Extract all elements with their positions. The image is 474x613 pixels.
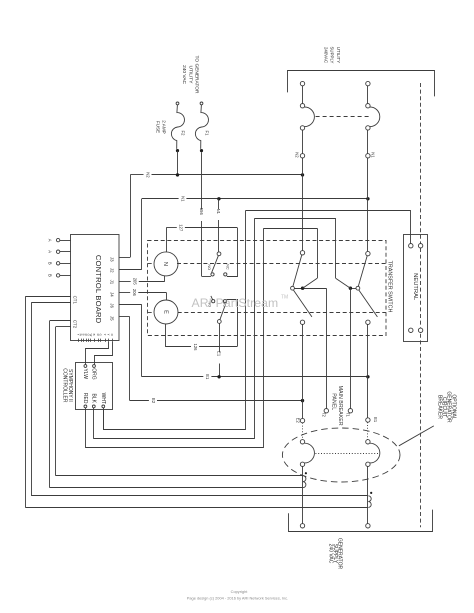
svg-text:Page design (c) 2004 - 2016 by: Page design (c) 2004 - 2016 by ARI Netwo… [187, 595, 288, 600]
dotted linkage E2 [302, 423, 304, 440]
svg-text:240 VAC: 240 VAC [181, 65, 187, 84]
wire [302, 86, 304, 104]
dashed link E coil [148, 312, 154, 314]
utility supply bracket [288, 71, 435, 97]
utility breaker pole B upper contact [366, 104, 370, 108]
wire N2 horizontal [130, 172, 302, 178]
svg-text:N2: N2 [295, 152, 300, 158]
terminal BLK [90, 393, 96, 407]
utility breaker pole A upper contact [300, 104, 304, 108]
label 2 AMP FUSE [156, 120, 167, 134]
label GENERATOR SUPPLY 240 VAC [328, 538, 343, 570]
wire pivot link [294, 288, 326, 290]
gen breaker pole L bottom [300, 462, 304, 466]
svg-text:T1: T1 [346, 412, 351, 418]
svg-text:N2: N2 [145, 172, 150, 178]
gen breaker pole R arc [370, 443, 380, 463]
svg-text:J2: J2 [110, 268, 115, 273]
optional generator breaker dashed ellipse [282, 428, 400, 482]
svg-text:N: N [162, 262, 168, 266]
wire 556 from F1 to aux NO [199, 152, 204, 276]
fuse F2 [171, 105, 185, 149]
dashed neutral conductor [420, 83, 422, 527]
svg-text:B: B [92, 334, 96, 336]
gen breaker pole L arc [305, 443, 315, 463]
wire [302, 130, 304, 153]
label UTILITY SUPPLY 240VAC [323, 46, 341, 63]
wire RED loop upper [264, 228, 318, 230]
svg-text:J6: J6 [110, 303, 115, 308]
wire E1 from aux common [217, 323, 222, 376]
wire L lower to E2 terminal [302, 325, 304, 419]
svg-text:205: 205 [133, 278, 138, 286]
wire CT1-a to CT-R bottom [25, 296, 71, 298]
terminal B2 [48, 274, 71, 277]
terminal RED [82, 393, 88, 408]
utility breaker pole B lower contact [366, 126, 370, 130]
utility breaker pole A top terminal [300, 81, 304, 85]
svg-text:A: A [48, 250, 53, 253]
dashed link N coil [148, 263, 154, 265]
svg-text:NEUTRAL: NEUTRAL [412, 273, 418, 301]
junction dot E1 aux [217, 375, 220, 378]
wire BLK loop upper [255, 218, 336, 220]
transfer contact R blade upper [358, 256, 367, 287]
svg-text:N1: N1 [180, 196, 185, 202]
neutral terminal bottom left [409, 328, 413, 332]
current transformer CT-L [303, 472, 307, 488]
wire [367, 86, 369, 104]
transfer contact L pivot [291, 286, 295, 290]
transfer contact L blade lower [293, 290, 312, 317]
control board box [71, 235, 120, 341]
svg-text:TM: TM [281, 295, 288, 301]
svg-text:UTILITY: UTILITY [187, 66, 193, 85]
wire T2 drop [326, 288, 328, 408]
svg-text:126: 126 [193, 344, 198, 352]
transfer contact L blade upper [293, 255, 302, 287]
svg-text:E1: E1 [373, 417, 378, 423]
junction dot E1 right [366, 375, 369, 378]
gen breaker pole R top [366, 440, 370, 444]
wire N2 from J3 [119, 257, 130, 259]
svg-text:PANEL: PANEL [331, 393, 337, 410]
aux switch E NO contact [208, 296, 215, 307]
utility breaker pole A lower contact [300, 126, 304, 130]
wire RED down [85, 408, 87, 448]
wire 206 J4 to E coil [119, 289, 166, 300]
generator supply bracket [289, 510, 433, 532]
svg-text:G: G [99, 334, 103, 336]
terminal gen R [366, 524, 370, 528]
svg-text:TRANSFER SWITCH: TRANSFER SWITCH [386, 261, 392, 313]
junction dot E2 [301, 399, 304, 402]
wire N1 from J2 [119, 269, 142, 271]
svg-text:N1: N1 [370, 152, 375, 158]
dotted tie gen breaker [315, 453, 379, 455]
wire WHT down [103, 408, 105, 430]
svg-text:E1: E1 [205, 374, 210, 380]
fuse F2 junction dot on N2 wire [176, 149, 179, 152]
svg-text:F1: F1 [204, 131, 209, 137]
junction dot R [349, 287, 352, 290]
svg-text:240 VAC: 240 VAC [328, 544, 334, 564]
svg-text:N1: N1 [216, 209, 221, 215]
svg-text:ARI PartStream: ARI PartStream [192, 296, 279, 310]
wire CT2-a to CT-L bottom [50, 320, 71, 322]
dotted linkage E1 [367, 422, 369, 439]
utility breaker dashed tie [316, 116, 372, 118]
wire gen L pole down [302, 467, 304, 524]
svg-text:J4: J4 [110, 292, 115, 297]
current transformer CT-R [368, 492, 372, 508]
wire T1 drop [350, 288, 352, 408]
wire ORG from board [95, 342, 113, 365]
aux switch E NC contact [222, 300, 226, 308]
svg-text:TO GENERATOR: TO GENERATOR [194, 56, 200, 94]
neutral terminal top right [418, 244, 422, 248]
wire N1 branch to aux common [216, 199, 221, 252]
transfer contact L lower [300, 320, 304, 324]
svg-text:2 AMP: 2 AMP [162, 120, 167, 134]
terminal A2 [48, 250, 71, 253]
fuse F1 [195, 105, 209, 149]
svg-text:556: 556 [199, 208, 204, 216]
terminal T2 [322, 409, 329, 418]
terminal WHT [100, 393, 106, 408]
wire pole B down to transfer contact [367, 158, 369, 251]
svg-text:B: B [48, 262, 53, 265]
svg-text:SUPPLY: SUPPLY [330, 46, 335, 63]
svg-text:240VAC: 240VAC [323, 47, 328, 63]
svg-text:206: 206 [132, 289, 137, 297]
label OPTIONAL GENERATOR CIRCUIT BREAKER [437, 391, 457, 423]
transfer contact R pivot [356, 286, 360, 290]
svg-text:F2: F2 [180, 131, 185, 137]
coil N [154, 252, 178, 276]
junction dot N1 branch [217, 197, 220, 200]
terminal T1 [346, 409, 353, 418]
wire 127 N coil top to aux NC [166, 224, 237, 252]
wire gen R pole down [367, 467, 369, 524]
wire R to riser [336, 278, 351, 288]
svg-text:Copyright: Copyright [231, 589, 249, 594]
gen breaker pole R bottom [366, 462, 370, 466]
wire YLW from board [86, 342, 109, 365]
aux switch E common pivot [217, 320, 221, 324]
wire N1 horizontal [142, 196, 368, 202]
wire CT2-b to CT-L top [56, 326, 71, 328]
svg-text:J1: J1 [110, 280, 115, 285]
aux switch E NC bracket to 126 [227, 300, 238, 347]
svg-text:A: A [48, 239, 53, 242]
svg-text:E: E [162, 310, 168, 314]
svg-text:YLW: YLW [82, 368, 88, 379]
transfer contact R upper [366, 251, 370, 255]
svg-text:CONTROL BOARD: CONTROL BOARD [94, 255, 103, 324]
utility pole B terminal N1 [366, 152, 376, 158]
junction dot N2/pole [301, 173, 304, 176]
transfer contact L upper [300, 251, 304, 255]
svg-text:E2: E2 [295, 418, 300, 424]
terminal YLW [82, 365, 88, 380]
junction dot N2/F2 [176, 173, 179, 176]
wire 205 J1 to N coil [119, 275, 165, 285]
junction dot L [301, 287, 304, 290]
label SYMPHONY II CONTROLLER [61, 368, 73, 403]
aux switch E blade [220, 303, 226, 320]
terminal B1 [48, 262, 71, 265]
wire 126 E coil bottom to aux NC [166, 324, 238, 351]
svg-text:J3: J3 [110, 257, 115, 262]
utility breaker pole A arc [305, 107, 315, 127]
label TO GENERATOR UTILITY 240 VAC [181, 56, 200, 94]
aux switch N NO bracket [202, 276, 211, 278]
callout line [399, 426, 434, 446]
svg-text:CONTROLLER: CONTROLLER [61, 368, 67, 403]
aux switch N common pivot [217, 252, 221, 256]
aux switch N blade [212, 256, 219, 273]
svg-text:ORG: ORG [91, 368, 97, 380]
svg-text:Y: Y [106, 334, 110, 336]
svg-text:NO: NO [207, 264, 211, 270]
svg-text:CT1: CT1 [72, 296, 77, 305]
svg-text:RED: RED [82, 393, 88, 404]
transfer contact R lower [366, 320, 370, 324]
svg-text:MAIN BREAKER: MAIN BREAKER [337, 386, 343, 426]
utility breaker pole B top terminal [366, 81, 370, 85]
neutral terminal top left [409, 244, 413, 248]
svg-text:FUSE: FUSE [156, 121, 161, 133]
neutral block [404, 235, 428, 342]
symphony controller box [76, 363, 113, 410]
wire [367, 130, 369, 153]
coil E [154, 300, 178, 324]
svg-text:B: B [48, 274, 53, 277]
aux switch N NC contact [224, 264, 230, 276]
terminal gen L [300, 524, 304, 528]
svg-text:BLK: BLK [90, 393, 96, 403]
utility breaker pole B arc [370, 107, 380, 127]
svg-text:BREAKER: BREAKER [437, 395, 443, 419]
wire L to riser [303, 278, 318, 288]
aux switch N NC bracket to 127 [227, 228, 238, 277]
aux switch N NO contact [207, 264, 214, 276]
terminal ORG [91, 365, 97, 380]
wire E2 from J5 [119, 317, 302, 404]
svg-text:J5: J5 [110, 316, 115, 321]
wire pole A down to transfer contact [302, 158, 304, 251]
transfer contact R blade lower [359, 290, 378, 317]
terminal E1 [366, 417, 378, 423]
wire WHT neutral loop [103, 410, 105, 430]
wire R lower to E1 terminal [367, 325, 369, 418]
neutral terminal bottom right [418, 328, 422, 332]
terminal A1 [48, 238, 71, 241]
svg-text:UTILITY: UTILITY [336, 47, 341, 63]
copyright text [187, 589, 288, 600]
gen breaker pole L top [300, 440, 304, 444]
svg-text:E2: E2 [151, 398, 156, 404]
svg-text:127: 127 [179, 224, 184, 232]
control board bottom pins [77, 334, 115, 342]
wire CT1-b to CT-R top [31, 302, 71, 304]
svg-text:WHT: WHT [100, 393, 106, 404]
wire pivot link R [350, 288, 356, 290]
fuse F1 terminal [200, 102, 203, 105]
svg-text:T2: T2 [322, 412, 327, 418]
terminal E2 [295, 418, 304, 424]
svg-text:NC: NC [225, 264, 229, 270]
junction dot N1/pole [366, 197, 369, 200]
watermark [192, 295, 289, 310]
label MAIN BREAKER PANEL [331, 386, 343, 426]
fuse F1 junction dot [200, 149, 203, 152]
transfer switch dashed enclosure [148, 241, 387, 336]
fuse F2 terminal [176, 102, 179, 105]
wire BLK down [93, 408, 95, 439]
wire E1 from J6 [119, 305, 368, 381]
svg-text:CT2: CT2 [72, 320, 77, 329]
svg-text:E1: E1 [217, 351, 222, 357]
utility pole A terminal N2 [295, 152, 305, 158]
